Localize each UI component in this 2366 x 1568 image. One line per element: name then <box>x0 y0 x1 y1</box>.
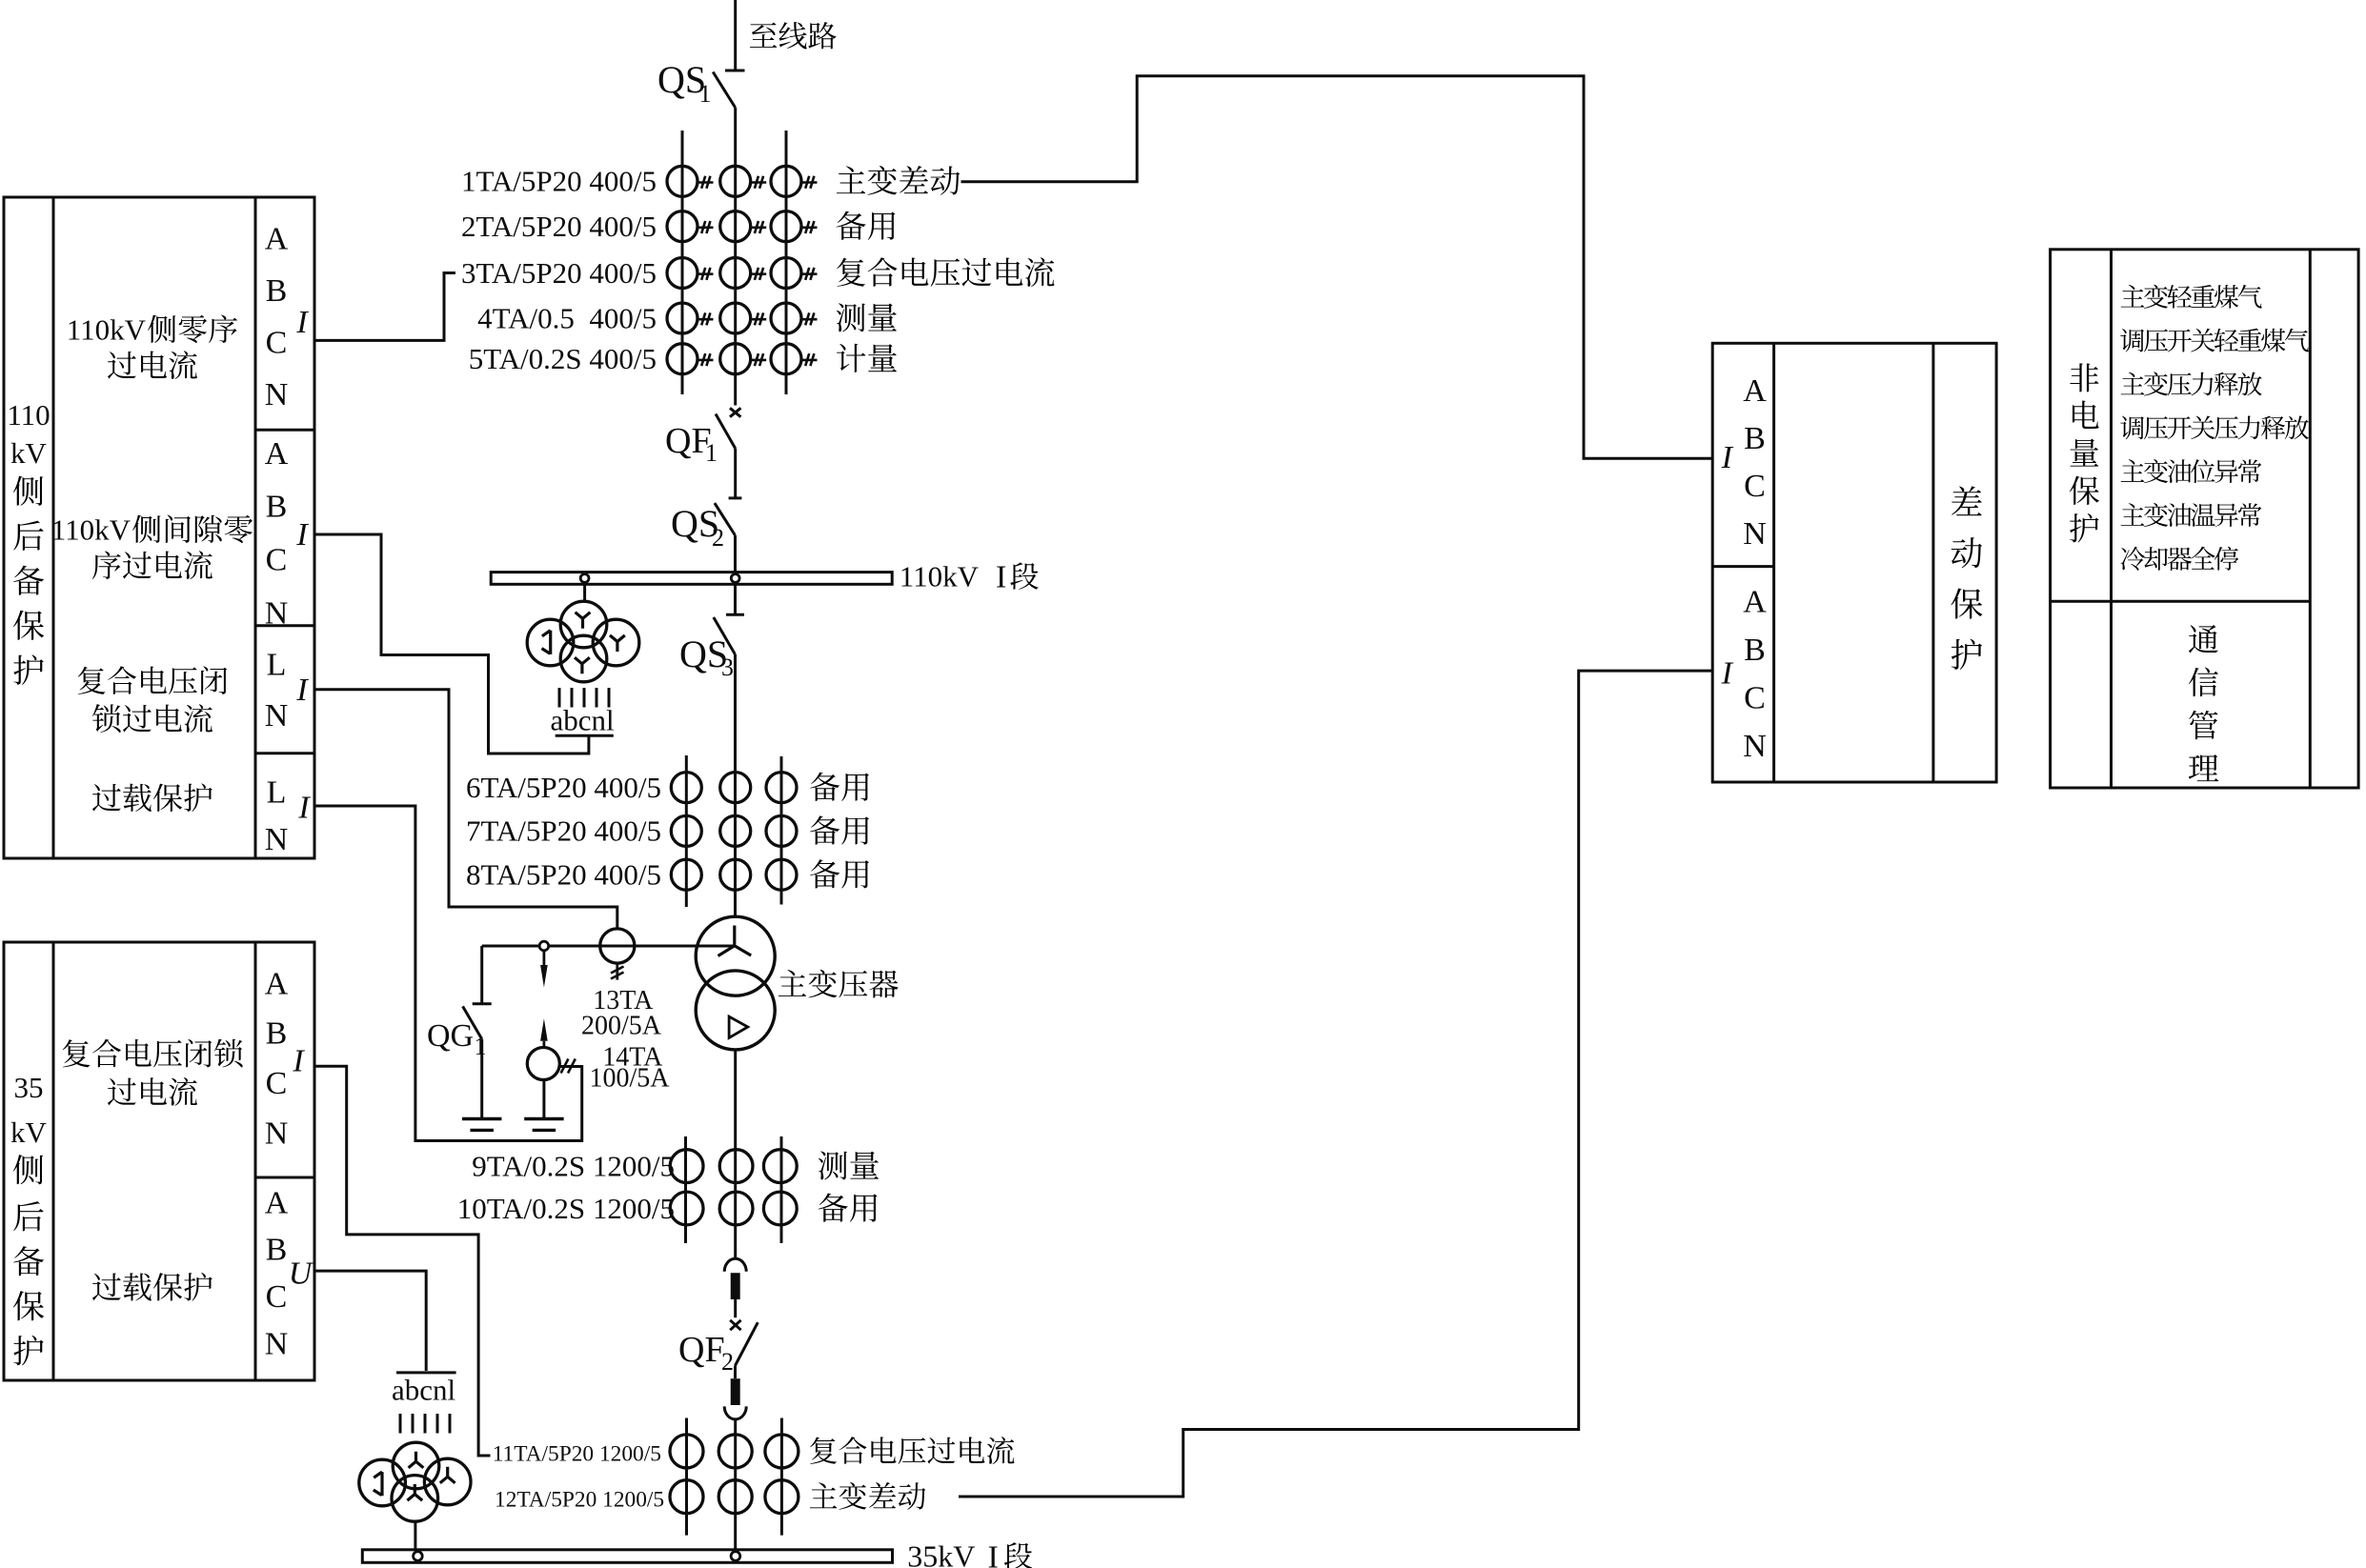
wire U secondary from 35kV box to PT2 <box>314 1271 426 1371</box>
svg-text:L: L <box>267 775 287 811</box>
svg-text:C: C <box>266 1279 288 1315</box>
svg-text:B: B <box>266 273 288 309</box>
label 备用 (spare) <box>810 773 839 801</box>
svg-text:110kV: 110kV <box>900 560 980 593</box>
svg-text:1: 1 <box>475 1033 487 1060</box>
wire bus to 110kV voltage transformer <box>583 584 586 601</box>
svg-text:I: I <box>297 790 311 825</box>
voltage transformer PT2 35kV (4-winding clover) <box>393 1442 439 1489</box>
svg-text:110kV: 110kV <box>51 513 131 546</box>
svg-text:A: A <box>265 966 289 1001</box>
terminal group divider line <box>1712 565 1773 568</box>
label 至线路 (to line) <box>750 22 777 47</box>
svg-text:N: N <box>265 1116 289 1151</box>
CT 7TA (3 phases) <box>671 815 701 846</box>
busbar 110kV section I <box>491 573 892 585</box>
svg-text:B: B <box>1744 421 1766 456</box>
label 测量 (measurement) <box>837 303 865 332</box>
svg-text:2: 2 <box>712 524 724 552</box>
svg-text:I: I <box>295 517 309 553</box>
PT2 secondary leads <box>399 1414 402 1434</box>
earthing switch QG1 <box>480 946 483 1004</box>
label 测量 (measurement) <box>819 1151 847 1179</box>
svg-text:8TA/5P20 400/5: 8TA/5P20 400/5 <box>466 858 661 892</box>
svg-text:C: C <box>266 543 288 578</box>
svg-text:1: 1 <box>699 80 712 108</box>
wire CT column line a (9TA-10TA) <box>684 1136 687 1243</box>
label 调压开关轻重煤气 <box>2120 329 2144 352</box>
wire CT column line c (9TA-10TA) <box>780 1136 783 1243</box>
svg-text:abcnl: abcnl <box>551 704 615 737</box>
wire CT column line a (1TA-5TA) <box>681 131 684 394</box>
label 非电量保护 (vertical) <box>2070 363 2098 392</box>
svg-text:U: U <box>289 1256 314 1291</box>
svg-text:B: B <box>266 490 288 525</box>
label 主变轻重煤气 <box>2121 285 2145 308</box>
svg-text:A: A <box>1743 585 1767 620</box>
protection device box: non-electrical protection <box>2051 250 2359 788</box>
svg-text:A: A <box>265 1185 289 1220</box>
T1 delta winding mark <box>729 1016 748 1037</box>
svg-text:B: B <box>266 1233 288 1268</box>
label 主变差动 (main transformer differential) <box>810 1482 837 1508</box>
label 复合电压闭锁过电流 <box>78 667 106 694</box>
svg-text:110: 110 <box>7 398 50 432</box>
transformer T1 main (two winding circles) <box>696 916 775 995</box>
wire QF2 to 35kV bus <box>734 1418 737 1550</box>
svg-text:1: 1 <box>705 439 718 467</box>
PT1 secondary leads <box>558 688 561 708</box>
T1 star winding mark <box>718 926 752 956</box>
label 差动保护 (differential protection, vertical) <box>1951 486 1982 515</box>
draw-out arrow up to 14TA <box>540 1018 548 1041</box>
svg-text:7TA/5P20 400/5: 7TA/5P20 400/5 <box>466 814 661 848</box>
wire QS1 to QF1 <box>734 108 737 406</box>
CT 4TA (3 phases) with polarity marks <box>667 303 698 333</box>
svg-text:2TA/5P20 400/5: 2TA/5P20 400/5 <box>461 210 657 243</box>
svg-text:N: N <box>265 596 289 632</box>
CT 10TA (3 phases) <box>670 1192 703 1225</box>
PT2 secondary bar <box>396 1371 456 1374</box>
svg-text:B: B <box>266 1016 288 1052</box>
svg-text:9TA/0.2S 1200/5: 9TA/0.2S 1200/5 <box>472 1149 675 1182</box>
node junction on 35kV bus at main line <box>731 1552 740 1561</box>
svg-text:N: N <box>265 698 289 734</box>
protection device box: 110kV side backup protection <box>4 197 314 858</box>
CT 11TA (3 phases) <box>670 1435 703 1468</box>
svg-text:2: 2 <box>721 1348 734 1376</box>
draw-out arrow down on neutral <box>543 951 546 966</box>
label 调压开关压力释放 <box>2120 416 2144 440</box>
svg-text:100/5A: 100/5A <box>590 1063 671 1093</box>
svg-text:A: A <box>265 436 289 472</box>
svg-text:B: B <box>1744 633 1766 668</box>
terminal group divider lines <box>255 429 314 432</box>
CT 12TA (3 phases) <box>670 1480 703 1514</box>
ground symbol below QG1 <box>462 1117 502 1120</box>
label 计量 (metering) <box>837 344 865 372</box>
wire CT column line a (11TA-12TA) <box>685 1418 688 1536</box>
busbar 35kV section I <box>362 1550 892 1563</box>
svg-text:6TA/5P20 400/5: 6TA/5P20 400/5 <box>466 771 661 804</box>
svg-text:3: 3 <box>721 653 734 681</box>
CT 6TA (3 phases) <box>671 773 701 803</box>
wire PT2 to 35kV bus <box>414 1521 416 1550</box>
svg-text:A: A <box>1743 373 1767 409</box>
label 主变差动 (main transformer differential) <box>837 166 865 193</box>
label 通信管理 (communication management, vertical) <box>2189 625 2218 653</box>
protection device box: differential protection <box>1712 343 1996 782</box>
svg-text:kV: kV <box>10 436 48 470</box>
CT 14TA on neutral earthing branch <box>527 1048 559 1080</box>
wire CT column line a (6TA-8TA) <box>685 755 688 907</box>
svg-text:C: C <box>266 1066 288 1101</box>
node junction on neutral branch <box>539 941 549 951</box>
CT 9TA (3 phases) <box>670 1150 703 1183</box>
divider line <box>2051 600 2311 603</box>
CT 5TA (3 phases) with polarity marks <box>667 344 698 374</box>
13TA secondary earthing mark <box>616 963 618 980</box>
label 主变压器 (main transformer) <box>779 970 806 996</box>
CT 13TA on neutral <box>600 929 635 963</box>
label 备用 (spare) <box>810 815 839 844</box>
wire 14TA to ground <box>542 1080 545 1119</box>
label 过载保护 (overload protection) <box>92 784 121 812</box>
wire 1TA secondary to differential protection box <box>961 76 1713 459</box>
label 备用 (spare) <box>810 859 839 888</box>
wire transformer to QF2 <box>734 1050 737 1260</box>
CT 2TA (3 phases) with polarity marks <box>667 211 698 242</box>
node junction on bus at PT tap <box>580 574 589 583</box>
PT1 secondary bar <box>556 734 614 737</box>
svg-text:C: C <box>1744 469 1766 504</box>
label 复合电压闭锁过电流 <box>63 1039 91 1067</box>
svg-text:N: N <box>265 822 289 857</box>
svg-text:QG: QG <box>427 1018 474 1054</box>
svg-text:11TA/5P20 1200/5: 11TA/5P20 1200/5 <box>493 1442 661 1467</box>
svg-text:200/5A: 200/5A <box>581 1011 662 1040</box>
svg-text:4TA/0.5 400/5: 4TA/0.5 400/5 <box>477 301 657 334</box>
voltage transformer PT1 110kV (4-winding clover) <box>560 601 607 648</box>
CT 8TA (3 phases) <box>671 859 701 890</box>
wire I group1 to 3TA label <box>314 273 455 341</box>
label 主变油位异常 <box>2121 459 2145 482</box>
label 复合电压过电流 (voltage-controlled overcurrent) <box>810 1437 837 1463</box>
disconnector QS2 <box>715 503 736 535</box>
label 过载保护 (overload protection) <box>92 1273 121 1300</box>
protection device box: 35kV side backup protection <box>4 942 314 1380</box>
svg-text:12TA/5P20 1200/5: 12TA/5P20 1200/5 <box>495 1488 664 1513</box>
svg-text:I: I <box>996 560 1006 595</box>
svg-text:I: I <box>292 1043 305 1078</box>
ground symbol below 14TA <box>524 1117 564 1120</box>
label 主变压力释放 <box>2121 372 2145 395</box>
svg-text:L: L <box>267 647 287 682</box>
svg-text:N: N <box>265 1326 289 1361</box>
CT 1TA (3 phases) with polarity marks <box>667 166 698 196</box>
wire 13TA secondary to 110kV backup protection overload <box>314 690 617 929</box>
wire 14TA secondary to 110kV backup protection overload LN <box>314 806 582 1141</box>
node junction on 35kV bus at PT tap <box>414 1552 423 1561</box>
wire neutral branch <box>482 945 735 948</box>
disconnector QS3 <box>734 584 737 614</box>
svg-text:I: I <box>988 1539 999 1568</box>
svg-text:N: N <box>1743 516 1767 552</box>
svg-text:10TA/0.2S 1200/5: 10TA/0.2S 1200/5 <box>457 1192 675 1225</box>
disconnector QS1 <box>725 70 745 72</box>
svg-text:abcnl: abcnl <box>392 1374 455 1407</box>
svg-text:C: C <box>1744 680 1766 715</box>
svg-text:110kV: 110kV <box>67 312 147 346</box>
wire CT column line c (6TA-8TA) <box>780 756 783 905</box>
wire QS3 to main transformer <box>734 654 737 918</box>
wire 12TA secondary to differential protection box <box>959 671 1712 1497</box>
wire incoming line at top <box>734 0 737 70</box>
CT 3TA (3 phases) with polarity marks <box>667 258 698 289</box>
node junction on bus at main line <box>731 574 739 583</box>
svg-text:1TA/5P20 400/5: 1TA/5P20 400/5 <box>461 165 657 198</box>
svg-text:I: I <box>1721 440 1734 475</box>
svg-text:C: C <box>266 325 288 360</box>
label 备用 (spare) <box>837 211 866 240</box>
circuit breaker QF2 (withdrawable) <box>724 1258 746 1272</box>
svg-text:I: I <box>295 673 309 708</box>
label 主变油温异常 <box>2121 503 2145 526</box>
svg-text:A: A <box>265 221 289 256</box>
svg-text:I: I <box>1721 655 1734 691</box>
label 复合电压过电流 (voltage-controlled overcurrent) <box>837 258 865 287</box>
svg-text:3TA/5P20 400/5: 3TA/5P20 400/5 <box>461 256 657 290</box>
wire CT column line c (1TA-5TA) <box>785 131 788 394</box>
svg-text:QF: QF <box>678 1330 725 1370</box>
svg-text:35kV: 35kV <box>907 1539 975 1568</box>
wire CT column line c (11TA-12TA) <box>780 1418 783 1536</box>
wire 11TA secondary to 35kV backup protection <box>314 1066 491 1456</box>
14TA secondary mark ticks <box>561 1059 569 1074</box>
label 冷却器全停 <box>2121 547 2145 571</box>
svg-text:35: 35 <box>14 1071 44 1104</box>
circuit breaker QF1 <box>730 408 740 416</box>
svg-text:N: N <box>1743 729 1767 764</box>
label 备用 (spare) <box>819 1194 848 1222</box>
svg-text:N: N <box>265 377 289 412</box>
svg-text:I: I <box>295 305 309 340</box>
terminal group divider line <box>255 1176 314 1179</box>
svg-text:kV: kV <box>10 1116 48 1149</box>
wire PT1 secondary to 110kV backup protection (composite voltage) <box>314 534 589 754</box>
svg-text:5TA/0.2S 400/5: 5TA/0.2S 400/5 <box>469 342 657 375</box>
